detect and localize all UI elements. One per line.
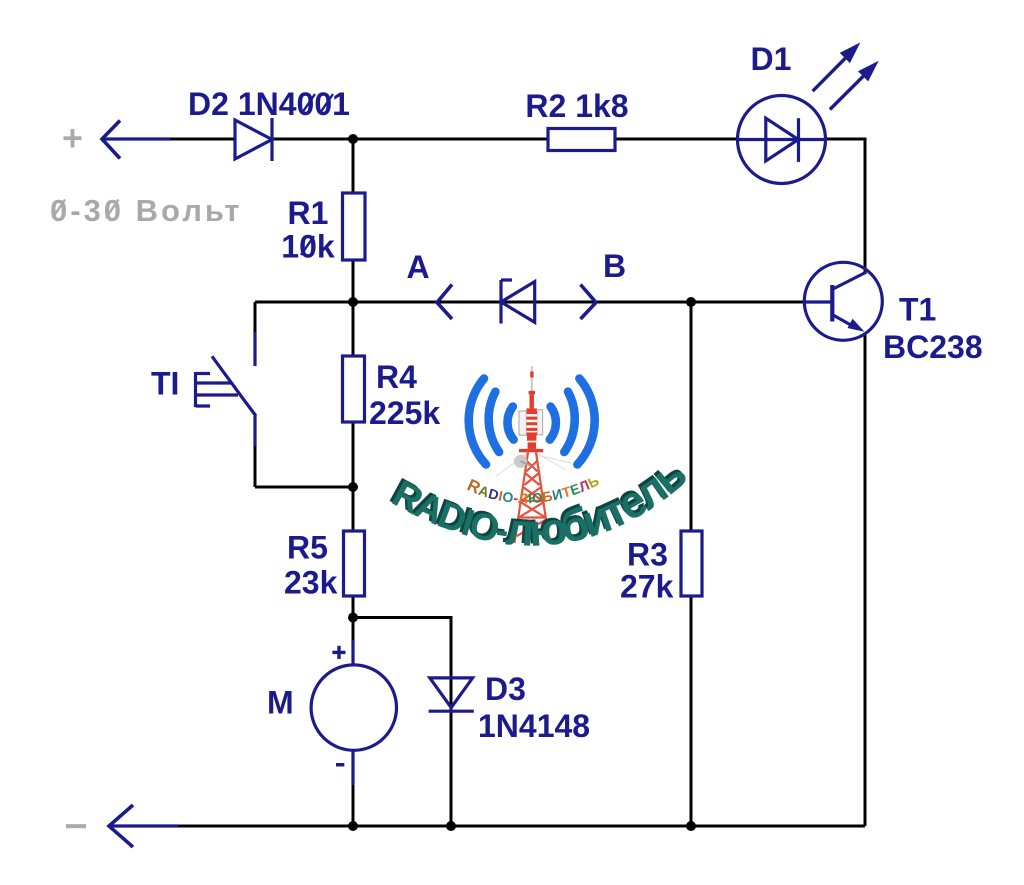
svg-text:R3: R3 — [627, 537, 668, 573]
svg-text:A: A — [406, 249, 429, 285]
svg-text:R2 1k8: R2 1k8 — [525, 88, 628, 124]
svg-text:R5: R5 — [287, 530, 328, 566]
svg-text:B: B — [603, 248, 626, 284]
svg-text:225k: 225k — [369, 395, 440, 431]
svg-text:R4: R4 — [376, 359, 417, 395]
svg-text:TI: TI — [151, 366, 179, 402]
svg-text:27k: 27k — [620, 569, 674, 605]
svg-text:23k: 23k — [284, 565, 338, 601]
svg-text:D1: D1 — [751, 41, 792, 77]
svg-text:BC238: BC238 — [883, 329, 983, 365]
svg-text:R1: R1 — [288, 195, 329, 231]
svg-text:D3: D3 — [485, 671, 526, 707]
svg-text:M: M — [267, 685, 294, 721]
svg-text:0-30 Вольт: 0-30 Вольт — [50, 193, 242, 228]
svg-text:T1: T1 — [899, 292, 936, 328]
svg-text:1N4148: 1N4148 — [478, 708, 590, 744]
